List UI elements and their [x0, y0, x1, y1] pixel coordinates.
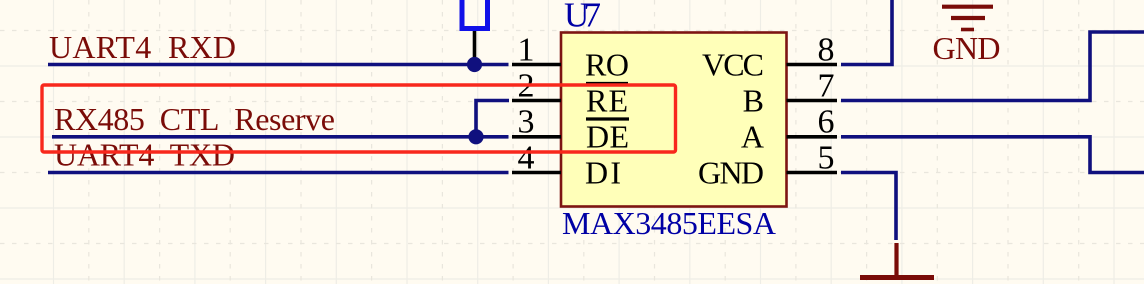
pin 4 DI — [512, 171, 561, 175]
svg-text:B: B — [743, 82, 764, 118]
svg-text:GND: GND — [933, 30, 1001, 66]
svg-text:DI: DI — [585, 154, 621, 190]
pin 3 DE (active low) — [512, 135, 561, 139]
junction on RX485_CTL_Reserve — [468, 129, 483, 144]
svg-text:A: A — [741, 119, 764, 155]
svg-text:DE: DE — [586, 119, 629, 155]
svg-text:RX485 CTL Reserve: RX485 CTL Reserve — [54, 101, 335, 137]
pin 1 RO — [512, 63, 561, 67]
svg-text:RE: RE — [586, 82, 628, 118]
svg-text:6: 6 — [818, 104, 835, 141]
svg-text:8: 8 — [818, 31, 835, 68]
svg-text:5: 5 — [818, 139, 835, 176]
wire B to right edge — [841, 32, 1144, 101]
wire VCC up — [841, 0, 892, 65]
svg-text:3: 3 — [518, 104, 535, 141]
pin 5 GND — [787, 171, 838, 175]
op-amp U7 body (MAX3485 transceiver) — [561, 33, 787, 207]
svg-text:MAX3485EESA: MAX3485EESA — [562, 205, 776, 241]
resistor R? (body, cut off at top) — [462, 0, 488, 29]
wire net UART4_RXD — [48, 63, 509, 67]
svg-text:4: 4 — [518, 139, 535, 176]
pin 2 RE (active low) — [512, 99, 561, 103]
wire net UART4_TXD — [48, 171, 509, 175]
wire net RX485_CTL_Reserve — [52, 135, 509, 139]
svg-text:GND: GND — [698, 154, 764, 190]
pin 6 A — [787, 135, 838, 139]
svg-text:U7: U7 — [564, 0, 601, 35]
svg-text:VCC: VCC — [702, 46, 764, 82]
svg-text:RO: RO — [585, 46, 629, 82]
power ground symbol (bottom) — [860, 243, 934, 278]
pin 8 VCC — [787, 63, 838, 67]
wire GND down — [841, 173, 896, 241]
pin 7 B — [787, 99, 838, 103]
resistor lead wire — [473, 31, 477, 65]
svg-text:UART4 RXD: UART4 RXD — [49, 29, 236, 65]
junction on UART4_RXD — [467, 57, 482, 72]
wire A to right edge — [841, 137, 1144, 173]
svg-text:7: 7 — [818, 67, 835, 104]
svg-text:UART4 TXD: UART4 TXD — [54, 136, 235, 172]
svg-text:1: 1 — [518, 31, 535, 68]
wire branch RE to DE — [476, 101, 509, 137]
highlight rectangle (red selection box) — [42, 85, 676, 152]
earth ground symbol (top) — [942, 7, 993, 30]
